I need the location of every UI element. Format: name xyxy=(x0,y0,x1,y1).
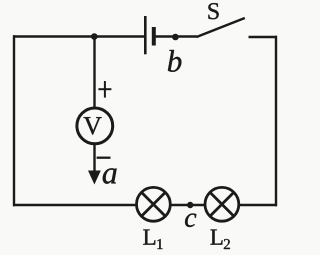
voltmeter minus polarity mark xyxy=(97,157,111,159)
lamp L1 circle xyxy=(137,187,171,221)
lamp L2 cross xyxy=(210,192,234,216)
voltmeter V circle xyxy=(77,108,113,144)
wire left side xyxy=(13,35,15,206)
switch S blade xyxy=(197,18,245,37)
battery cell long positive plate xyxy=(144,16,147,54)
wire top-left segment xyxy=(13,35,145,37)
node c dot xyxy=(187,202,193,208)
switch S label xyxy=(208,3,218,19)
junction node dot on top wire xyxy=(91,33,98,40)
voltmeter plus polarity mark xyxy=(98,81,111,98)
battery cell short negative plate xyxy=(152,27,156,46)
lamp L2 label letter xyxy=(210,230,222,245)
node c label xyxy=(185,214,196,227)
lamp L2 circle xyxy=(205,187,239,221)
wire voltmeter branch upper xyxy=(93,37,95,109)
node b dot xyxy=(172,34,179,41)
lamp L1 label subscript 1 xyxy=(157,239,162,249)
wire between lamps xyxy=(171,204,206,206)
wire bottom-left segment xyxy=(13,204,137,206)
lamp L2 label subscript 2 xyxy=(224,239,230,249)
wire switch fixed-contact stub xyxy=(249,36,278,38)
wire voltmeter branch lower shaft xyxy=(93,144,95,174)
lamp L1 label letter xyxy=(143,230,155,245)
lamp L1 cross xyxy=(141,192,165,216)
arrowhead pointing to node a xyxy=(88,171,101,185)
node b label xyxy=(168,50,181,72)
node a label xyxy=(103,168,117,183)
wire bottom-right segment xyxy=(239,204,277,206)
wire battery to node b and switch pivot xyxy=(154,35,197,37)
voltmeter V letter xyxy=(83,117,101,134)
wire right side xyxy=(275,36,277,206)
